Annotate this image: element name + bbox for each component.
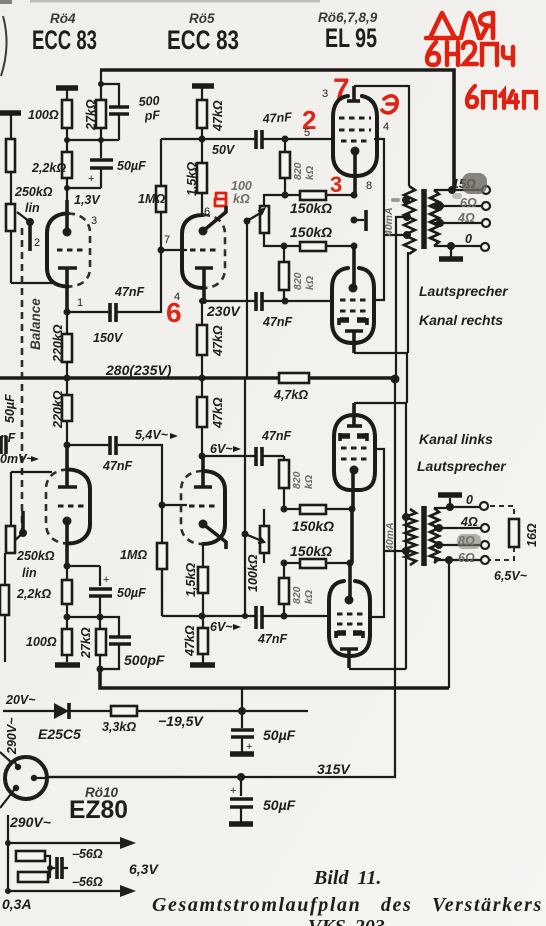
cap 50uF links (89, 566, 112, 617)
resistor 1,5kohm (rechts) (197, 139, 207, 215)
svg-text:27kΩ: 27kΩ (84, 99, 98, 131)
lower anode wire to primary bottom (354, 252, 408, 403)
pin label 2 (34, 237, 40, 249)
label 100kohm (231, 179, 252, 206)
resistor 47kohm anode (rechts) (197, 88, 207, 139)
triode V2 links dashed half (181, 471, 203, 544)
label 315V (317, 761, 351, 777)
cut cap at left edge (0, 431, 16, 454)
svg-text:500pF: 500pF (124, 652, 165, 668)
links lower anode wire to primary bottom (349, 668, 406, 670)
label 40mA rotated (383, 207, 395, 237)
svg-text:47nF: 47nF (262, 315, 293, 329)
cathode link cap stub (351, 210, 367, 231)
middle rail 280(235V) (0, 376, 395, 380)
pot 100k links (260, 509, 269, 563)
tube label Rö5 (189, 11, 215, 26)
tube label Rö4 (50, 11, 76, 26)
label Lautsprecher rechts (419, 283, 509, 299)
V1 cathode dot (63, 200, 72, 237)
label 47kohm rotated (211, 397, 225, 429)
wiper drop wire links (242, 378, 248, 619)
label 47nF (114, 285, 145, 299)
left input terminal bar (0, 113, 52, 283)
resistor 820k upper a (280, 139, 290, 195)
cap 47nF to EL95 grid (256, 130, 262, 149)
svg-text:kΩ: kΩ (303, 590, 315, 604)
EL95 lower anode blobs (339, 318, 367, 325)
resistor 27kohm links (96, 617, 106, 669)
label 150kohm (290, 200, 332, 216)
svg-text:820: 820 (291, 586, 303, 604)
svg-text:6Ω: 6Ω (458, 551, 475, 565)
links row2 150kohm (281, 559, 354, 568)
label 3,3kohm (102, 720, 136, 734)
resistor 1,5kohm links (198, 544, 208, 616)
svg-text:150kΩ: 150kΩ (292, 518, 334, 534)
V2 grid dashes (190, 248, 218, 251)
output transformer links secondary (430, 508, 439, 563)
label Kanal rechts (419, 312, 503, 328)
pot wiper arrow (244, 209, 265, 225)
potentiometer 250k links (6, 526, 15, 553)
svg-text:16Ω: 16Ω (525, 523, 539, 547)
pin label 6 (204, 206, 210, 218)
red annotation ДЛЯ (426, 13, 493, 38)
svg-text:220kΩ: 220kΩ (51, 324, 65, 363)
svg-text:100kΩ: 100kΩ (246, 554, 260, 592)
EZ80 pins (11, 761, 37, 793)
svg-text:lin: lin (25, 201, 40, 215)
V1 links grid dashes (58, 504, 84, 507)
capacitor 500pF (101, 84, 129, 140)
pentode EL95 upper rechts outline (333, 96, 377, 176)
speaker terminal 0 links (466, 493, 488, 510)
svg-text:3: 3 (91, 215, 97, 227)
caption VKS 203 clipped (308, 916, 385, 926)
resistor 27kohm (rechts) (96, 84, 106, 140)
feedback row2 150kohm (281, 242, 358, 251)
resistor 220kohm lower (62, 378, 72, 445)
diode E25C5 (54, 703, 69, 719)
label Lautsprecher links (417, 458, 507, 474)
output transformer rechts primary (404, 186, 415, 254)
V2 cathode dot and lead (199, 206, 227, 236)
label 16ohm rotated (525, 523, 539, 547)
label 4ohm gray (457, 211, 475, 225)
svg-text:6V~: 6V~ (210, 620, 233, 634)
negative supply wire 20V (3, 710, 308, 712)
V2 links cathode (199, 520, 227, 550)
links cathode node wire (199, 453, 256, 460)
label 6,5V (494, 569, 528, 583)
resistor 3,3kohm (111, 706, 137, 716)
svg-text:Rö5: Rö5 (189, 11, 215, 26)
label 150kohm (292, 518, 334, 534)
label 47kohm rotated (211, 325, 225, 357)
heater wire 6,3V top (8, 837, 136, 849)
links input node wire (64, 442, 110, 449)
svg-text:Lautsprecher: Lautsprecher (417, 458, 507, 474)
transformer core (421, 189, 427, 249)
label 220kohm rotated (51, 324, 65, 363)
resistor 47kohm below rail (197, 378, 207, 456)
resistor 820k links a (279, 456, 289, 509)
label 500pF (124, 652, 165, 668)
svg-text:100: 100 (231, 179, 252, 193)
label 4,7kohm (273, 388, 308, 402)
resistor 220kohm upper (62, 312, 72, 378)
svg-text:47kΩ: 47kΩ (211, 325, 225, 357)
red pin mark 2 (302, 105, 316, 135)
V1 links cathode (63, 517, 72, 567)
label 0,3A (2, 896, 32, 912)
terminal bar above 100ohm (56, 88, 78, 100)
svg-text:4Ω: 4Ω (457, 211, 475, 225)
label -19,5V (158, 713, 204, 729)
EL95 upper grid rows (339, 118, 371, 141)
hum balance cap (47, 857, 68, 879)
svg-text:4Ω: 4Ω (460, 515, 478, 529)
resistor 100ohm (rechts input) (62, 100, 72, 140)
svg-text:150kΩ: 150kΩ (290, 543, 332, 559)
pin label 8 (366, 180, 372, 192)
triode V2 links solid arc (203, 471, 225, 544)
EL95 links lower cathode dot (345, 563, 354, 605)
resistor 2,2kohm (rechts) (62, 140, 72, 188)
svg-text:250kΩ: 250kΩ (14, 185, 53, 199)
svg-text:ECC 83: ECC 83 (167, 25, 239, 55)
EZ80 input wires (0, 752, 12, 808)
resistor 1Mohm links (157, 502, 187, 617)
triode V1 rechts dashed half (68, 214, 90, 287)
V1 grid dashes (57, 248, 85, 251)
svg-text:lin: lin (22, 566, 37, 580)
red annotation 6П14П (467, 86, 536, 108)
label 5,4V (135, 428, 178, 442)
label 47nF links lower (257, 632, 288, 646)
label 6,3V (129, 861, 159, 877)
speaker terminal 0 (465, 232, 489, 251)
svg-text:6V~: 6V~ (210, 442, 233, 456)
label 1,5kohm rotated links (184, 563, 198, 597)
svg-text:50µF: 50µF (117, 586, 146, 600)
label 250kohm lin links (16, 549, 55, 580)
tube arc at left page edge (1, 16, 7, 76)
svg-text:ECC 83: ECC 83 (32, 25, 97, 55)
links row1 150kohm (281, 505, 356, 514)
output transformer rechts secondary (430, 190, 439, 246)
svg-text:+: + (230, 785, 236, 797)
V2 anode (195, 268, 213, 301)
svg-text:250kΩ: 250kΩ (16, 549, 55, 563)
svg-text:47nF: 47nF (114, 285, 145, 299)
links secondary top tap and ground (434, 495, 480, 511)
label 15ohm smudge (452, 173, 487, 199)
label 820kohm rotated (292, 162, 316, 180)
links anode wire to primary (354, 403, 406, 669)
ground chassis links input (55, 662, 80, 668)
svg-text:47kΩ: 47kΩ (211, 100, 225, 132)
anode supply bar (192, 83, 214, 89)
svg-text:280(235V): 280(235V) (105, 362, 172, 378)
svg-text:47nF: 47nF (102, 459, 133, 473)
label 50uF (263, 797, 296, 813)
EL95 links lower blobs (336, 631, 363, 638)
svg-text:230V: 230V (206, 303, 241, 319)
label 50uF (263, 727, 296, 743)
svg-text:820: 820 (292, 272, 304, 290)
label 27kohm rotated (84, 99, 98, 131)
pot wiper node 2 (17, 212, 34, 251)
potentiometer 100k (rechts) (260, 195, 285, 246)
svg-text:50V: 50V (212, 143, 236, 157)
tube label ECC 83 (Rö5) (167, 25, 239, 55)
pin label 5 (304, 127, 310, 139)
label 50uF rotated left edge (3, 394, 17, 423)
label 50uF (117, 159, 146, 173)
transformer links core (421, 506, 427, 566)
triode V2 rechts solid arc (182, 215, 203, 288)
svg-text:50µF: 50µF (263, 797, 296, 813)
svg-text:kΩ: kΩ (233, 192, 250, 206)
svg-text:27kΩ: 27kΩ (79, 627, 93, 659)
label EZ80 (69, 796, 128, 824)
EL95 links upper anode (347, 403, 362, 426)
potentiometer 250k body (6, 204, 15, 231)
svg-text:0mV~: 0mV~ (0, 452, 34, 466)
label 6V links (210, 620, 241, 634)
svg-text:1,5kΩ: 1,5kΩ (184, 563, 198, 597)
red pin mark 6 (166, 297, 182, 328)
links cathode network node (64, 563, 101, 570)
pot wiper arrow links (242, 531, 265, 544)
svg-text:2,2kΩ: 2,2kΩ (31, 161, 66, 175)
pentode EL95 links upper outline (334, 415, 375, 490)
label 820kohm rotated (292, 272, 316, 290)
svg-text:150kΩ: 150kΩ (290, 200, 332, 216)
svg-text:47kΩ: 47kΩ (211, 397, 225, 429)
links primary taps (402, 513, 410, 555)
caption Gesamtstromlaufplan des Verstärkers (152, 894, 543, 916)
svg-text:5,4V~: 5,4V~ (135, 428, 169, 442)
svg-text:6: 6 (204, 206, 210, 218)
label 250kohm lin (14, 185, 53, 215)
svg-text:Bild 11.: Bild 11. (313, 867, 381, 889)
svg-text:EZ80: EZ80 (69, 796, 128, 824)
svg-text:‒56Ω: ‒56Ω (72, 875, 103, 889)
links secondary taps (434, 524, 481, 549)
svg-text:3: 3 (330, 172, 342, 197)
svg-text:Kanal links: Kanal links (419, 431, 493, 447)
pin label 3 (EL95) (322, 88, 328, 100)
label 2,2kohm links (16, 587, 51, 601)
svg-text:3,3kΩ: 3,3kΩ (102, 720, 136, 734)
wiper drop wire (246, 221, 248, 378)
label 500pF (138, 94, 161, 123)
svg-text:820: 820 (291, 471, 303, 489)
EL95 links lower grid rows (337, 614, 363, 624)
svg-text:150V: 150V (93, 331, 124, 345)
pentode EL95 lower rechts outline (332, 268, 374, 343)
svg-text:47kΩ: 47kΩ (183, 625, 197, 657)
coupling cap 47nF (rechts) (67, 250, 161, 322)
svg-text:kΩ: kΩ (303, 475, 315, 489)
label 47kohm rotated links (183, 625, 197, 657)
speaker terminal 15ohm (482, 186, 490, 194)
label Rö10 (85, 785, 119, 800)
anode 230V wire (201, 298, 255, 304)
label 150V (93, 331, 124, 345)
tube label ECC 83 (Rö4) (32, 25, 97, 55)
bottom ground rail (100, 669, 449, 688)
svg-text:Gesamtstromlaufplan des Verstä: Gesamtstromlaufplan des Verstärkers (152, 894, 543, 916)
label 20V (5, 693, 36, 707)
svg-text:4,7kΩ: 4,7kΩ (273, 388, 308, 402)
balance dashed link (21, 228, 24, 530)
svg-text:kΩ: kΩ (304, 276, 316, 290)
tube label EL 95 (325, 23, 377, 53)
heater wire 6,3V bottom (8, 885, 136, 897)
svg-text:0,3A: 0,3A (2, 896, 32, 912)
label 40mA rotated links (384, 522, 396, 552)
EL95 lower cathode dot (349, 246, 358, 293)
cathode node wire 1,3V (64, 185, 101, 233)
svg-text:290V~: 290V~ (5, 717, 19, 755)
svg-text:E25C5: E25C5 (38, 726, 81, 742)
caption Bild 11. (313, 867, 381, 889)
svg-text:8: 8 (366, 180, 372, 192)
label E25C5 (38, 726, 81, 742)
node 7 (158, 234, 188, 254)
label 100kohm rotated links (246, 554, 260, 592)
cap 47nF links mid (256, 447, 284, 466)
svg-text:Balance: Balance (28, 298, 43, 350)
red pin mark 9 (382, 96, 397, 113)
label 820kohm rotated (291, 471, 315, 489)
resistor 47kohm links cathode (198, 616, 208, 663)
label 6V (210, 442, 241, 456)
svg-text:150kΩ: 150kΩ (290, 224, 332, 240)
cap 50uF bias (230, 730, 254, 754)
EL95 upper cathode (351, 147, 360, 196)
svg-text:+: + (88, 173, 94, 185)
label 50V (212, 143, 236, 157)
svg-text:+: + (246, 741, 252, 753)
resistor 16ohm dashed load (490, 506, 519, 560)
EL95 links lower anode (340, 649, 358, 668)
grid wire to EL95 upper (263, 136, 333, 143)
svg-text:3: 3 (322, 88, 328, 100)
resistor 56ohm top (16, 851, 50, 868)
triode V2 rechts dashed half (203, 215, 225, 288)
junction at 50uF main (237, 773, 245, 796)
EL95 links upper cathode (350, 466, 359, 564)
svg-text:Lautsprecher: Lautsprecher (419, 283, 509, 299)
svg-text:−19,5V: −19,5V (158, 713, 204, 729)
label 47nF (261, 110, 292, 126)
svg-text:4: 4 (383, 121, 389, 133)
output transformer links primary (405, 509, 416, 565)
B+ feed line (396, 217, 407, 379)
pin label 3 (91, 215, 97, 227)
svg-text:1MΩ: 1MΩ (138, 192, 165, 206)
svg-text:820: 820 (292, 162, 304, 180)
svg-text:100Ω: 100Ω (26, 635, 57, 649)
svg-text:1: 1 (77, 297, 83, 309)
secondary tap wires (434, 202, 482, 227)
svg-text:kΩ: kΩ (304, 166, 316, 180)
primary taps (391, 196, 411, 239)
svg-text:500: 500 (138, 94, 160, 109)
resistor 1Mohm (rechts) (156, 139, 166, 250)
ground chassis below secondary (439, 246, 463, 259)
svg-text:VKS 203: VKS 203 (308, 916, 385, 926)
label 100ohm (28, 108, 59, 122)
pot wiper node 2 links (13, 511, 27, 542)
svg-text:315V: 315V (317, 761, 351, 777)
capacitor 50uF (rechts cathode) (88, 140, 113, 188)
resistor 2,2kohm links (62, 566, 72, 617)
label 290V (9, 814, 51, 830)
resistor 47kohm above rail (197, 298, 207, 378)
node 50V wire (161, 136, 255, 143)
label 230V (206, 303, 241, 319)
junction at 50uF bias (238, 688, 246, 728)
speaker terminal bottom links (458, 551, 489, 565)
svg-text:0: 0 (465, 232, 472, 246)
svg-text:40mA: 40mA (383, 207, 395, 237)
label 1,5kohm rotated (185, 162, 199, 196)
svg-text:2,2kΩ: 2,2kΩ (16, 587, 51, 601)
label 4ohm links (460, 515, 478, 529)
svg-text:‒56Ω: ‒56Ω (72, 847, 103, 861)
wire 27k top to rail (98, 70, 104, 87)
cap 47nF links lower (256, 606, 330, 629)
top supply rail (100, 70, 454, 189)
screen grid wire with 40mA (374, 139, 407, 300)
label 220kohm rotated (51, 390, 65, 429)
label 100ohm links (26, 635, 57, 649)
label 1,3V (74, 193, 101, 207)
red annotation 6Н2Пч (427, 42, 513, 65)
svg-text:5: 5 (304, 127, 310, 139)
label 47nF (261, 429, 292, 443)
left edge wire links (0, 472, 52, 662)
triode V1 links dashed half (46, 470, 68, 544)
label 8ohm gray smudge (457, 534, 481, 549)
label 27kohm rotated links (79, 627, 93, 659)
triode V1 rechts (ECC83 half) solid arc (47, 214, 68, 287)
ground chassis links cathode (190, 662, 215, 668)
EL95 lower grid rows (340, 300, 366, 311)
label 280(235V) (105, 362, 172, 378)
label 56ohm bottom (72, 875, 103, 889)
svg-text:6,3V: 6,3V (129, 861, 159, 877)
wire EZ80 to 315V (34, 777, 242, 778)
svg-text:50µF: 50µF (3, 394, 17, 423)
svg-text:4: 4 (174, 291, 180, 303)
svg-text:100Ω: 100Ω (28, 108, 59, 122)
svg-text:220kΩ: 220kΩ (51, 390, 65, 429)
svg-text:Rö4: Rö4 (50, 11, 76, 26)
svg-text:1MΩ: 1MΩ (120, 548, 147, 562)
resistor 100ohm links (62, 617, 72, 662)
label 2,2kohm (31, 161, 66, 175)
pin label 4 (V2) (174, 291, 180, 303)
label Balance rotated (28, 298, 43, 350)
label 820kohm rotated (291, 586, 315, 604)
